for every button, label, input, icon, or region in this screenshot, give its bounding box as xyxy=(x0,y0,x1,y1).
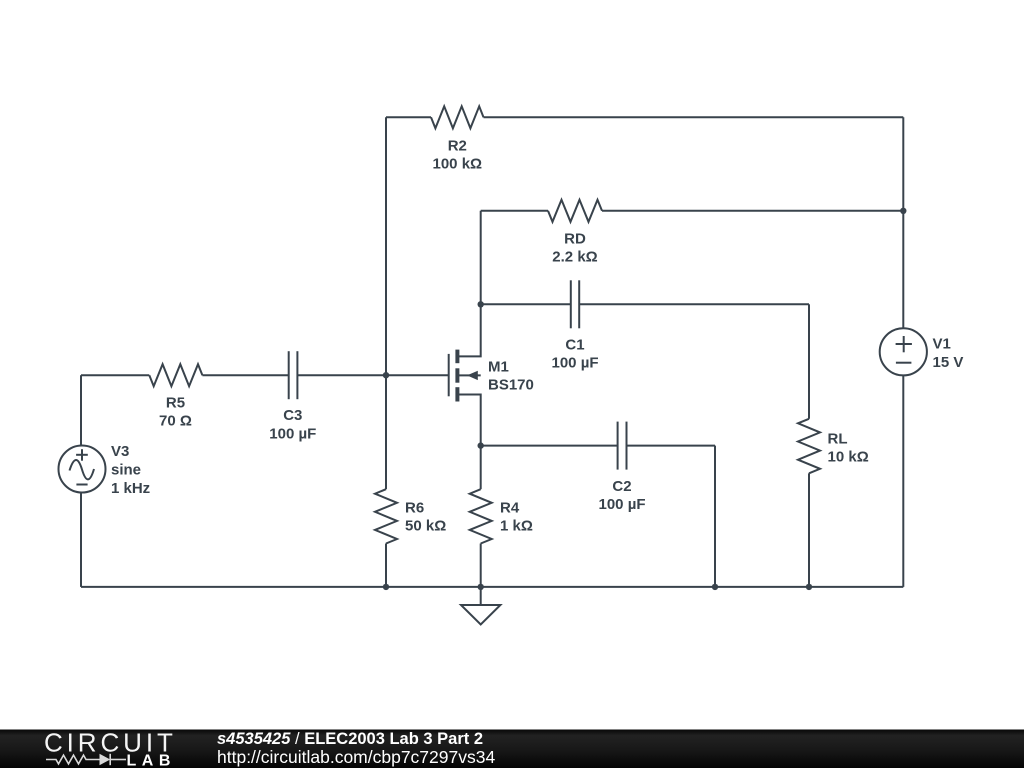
wire RD right lead to right rail xyxy=(602,210,903,212)
transistor M1 source lead xyxy=(459,395,481,446)
transistor M1 channel segments xyxy=(455,350,459,402)
resistor R2 xyxy=(431,106,484,128)
voltage source V3 circle xyxy=(59,446,106,493)
resistor RL xyxy=(798,419,820,474)
svg-text:R5: R5 xyxy=(166,394,185,411)
transistor M1 body arrow xyxy=(467,371,478,380)
node junction dot gate xyxy=(383,372,389,378)
resistor R5 xyxy=(149,364,202,386)
capacitor C2 xyxy=(617,422,619,470)
footer bar xyxy=(0,730,1024,768)
voltage source V1 circle xyxy=(880,328,927,375)
node junction dot R6 bottom xyxy=(383,584,389,590)
wire R5 left lead from V3 xyxy=(81,374,149,376)
capacitor C1 xyxy=(570,280,572,328)
wire V3 top vertical xyxy=(80,375,82,445)
svg-text:2.2 kΩ: 2.2 kΩ xyxy=(552,249,597,266)
svg-text:100 µF: 100 µF xyxy=(552,355,599,372)
svg-text:s4535425 / ELEC2003 Lab 3 Part: s4535425 / ELEC2003 Lab 3 Part 2 xyxy=(217,730,483,748)
node junction dot source xyxy=(478,442,484,448)
transistor M1 gate bar xyxy=(448,354,450,396)
svg-text:15 V: 15 V xyxy=(933,354,964,371)
svg-text:C2: C2 xyxy=(612,478,631,495)
svg-text:LAB: LAB xyxy=(127,752,176,768)
svg-text:V3: V3 xyxy=(111,443,129,460)
svg-text:50 kΩ: 50 kΩ xyxy=(405,518,446,535)
svg-text:100 kΩ: 100 kΩ xyxy=(433,155,483,172)
wire right rail top vertical xyxy=(902,117,904,328)
svg-text:1 kΩ: 1 kΩ xyxy=(500,518,533,535)
node junction dot RD right xyxy=(900,208,906,214)
wire R4 bottom vertical xyxy=(480,544,482,587)
ground stub xyxy=(480,587,482,605)
wire R4 top vertical xyxy=(480,446,482,490)
wire V1 bottom vertical xyxy=(902,375,904,587)
node junction dot ground xyxy=(478,584,484,590)
svg-text:C3: C3 xyxy=(283,407,302,424)
svg-text:R6: R6 xyxy=(405,500,424,517)
svg-text:100 µF: 100 µF xyxy=(599,496,646,513)
V1 plus sign xyxy=(896,343,912,345)
V3 sine wave xyxy=(70,460,95,479)
wire C2 right lead xyxy=(627,445,716,447)
wire top rail from R2 left corner to right rail xyxy=(386,116,431,118)
wire C2 right vertical xyxy=(714,446,716,587)
svg-text:100 µF: 100 µF xyxy=(269,425,316,442)
node junction dot drain xyxy=(478,301,484,307)
wire RD left lead xyxy=(481,210,548,212)
svg-text:sine: sine xyxy=(111,462,141,479)
svg-text:70 Ω: 70 Ω xyxy=(159,412,192,429)
svg-text:RD: RD xyxy=(564,231,586,248)
wire R5 to C3 xyxy=(202,374,288,376)
transistor M1 gate lead wire xyxy=(386,374,449,376)
wire RL top vertical xyxy=(808,304,810,419)
svg-text:1 kHz: 1 kHz xyxy=(111,480,150,497)
resistor R4 xyxy=(470,489,492,543)
V1 minus sign xyxy=(896,362,912,364)
V3 plus sign xyxy=(76,454,88,456)
svg-text:V1: V1 xyxy=(933,336,951,353)
logo diode triangle xyxy=(100,754,111,765)
resistor RD xyxy=(548,200,602,222)
wire V3 bottom vertical xyxy=(80,493,82,587)
svg-text:R4: R4 xyxy=(500,500,520,517)
wire C1 right lead xyxy=(579,303,809,305)
svg-text:http://circuitlab.com/cbp7c729: http://circuitlab.com/cbp7c7297vs34 xyxy=(217,747,495,767)
logo resistor-diode glyph xyxy=(46,754,126,765)
transistor M1 drain lead xyxy=(459,304,481,356)
wire top rail right segment xyxy=(484,116,904,118)
svg-text:C1: C1 xyxy=(565,337,584,354)
svg-text:RL: RL xyxy=(828,430,848,447)
svg-text:M1: M1 xyxy=(488,359,509,376)
ground triangle xyxy=(461,605,500,625)
wire left vertical gate node to R6 xyxy=(385,375,387,489)
wire RD branch vertical xyxy=(480,211,482,304)
wire left vertical from top rail to gate node xyxy=(385,117,387,375)
wire bottom rail xyxy=(81,586,903,588)
V3 minus sign xyxy=(76,484,87,486)
transistor M1 body lead xyxy=(459,374,481,376)
svg-text:BS170: BS170 xyxy=(488,377,534,394)
wire RL bottom vertical xyxy=(808,473,810,587)
wire C3 to gate node xyxy=(297,374,386,376)
svg-text:R2: R2 xyxy=(448,137,467,154)
node junction dot C2 bottom xyxy=(712,584,718,590)
wire C1 left lead xyxy=(481,303,571,305)
wire C2 left lead xyxy=(481,445,618,447)
resistor R6 xyxy=(375,489,397,543)
svg-text:10 kΩ: 10 kΩ xyxy=(828,449,869,466)
capacitor C3 xyxy=(288,351,290,399)
node junction dot RL bottom xyxy=(806,584,812,590)
wire R6 bottom to ground rail xyxy=(385,544,387,587)
